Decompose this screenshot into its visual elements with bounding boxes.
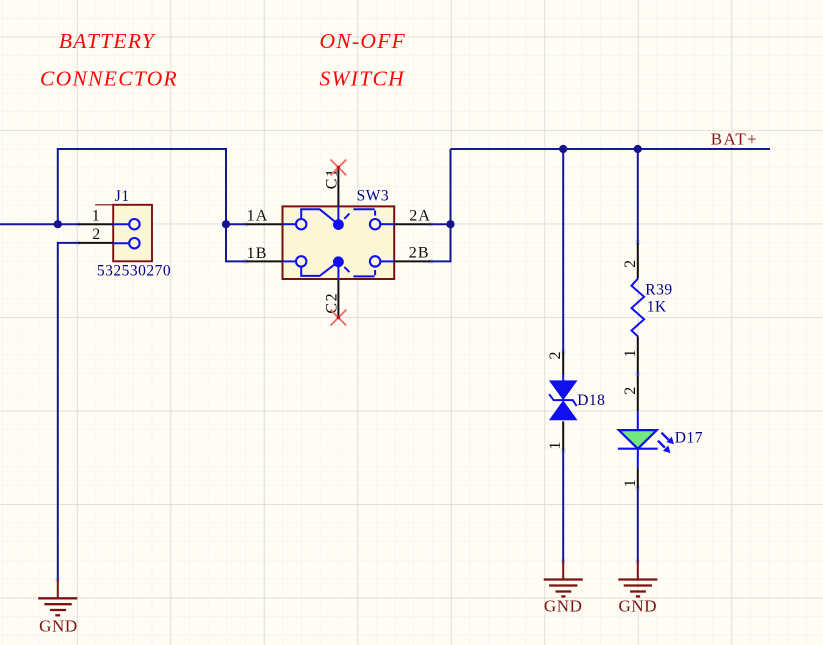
svg-text:2: 2 xyxy=(622,387,639,395)
wire: R39 branch upper xyxy=(637,149,639,242)
svg-text:C1: C1 xyxy=(323,168,340,190)
svg-text:GND: GND xyxy=(544,597,583,616)
title text ON-OFF SWITCH xyxy=(320,29,407,90)
svg-text:BATTERY: BATTERY xyxy=(59,29,156,53)
wire: R39 to D17 short link xyxy=(637,373,639,376)
svg-text:R39: R39 xyxy=(645,282,672,299)
ground symbol left xyxy=(38,579,78,635)
wire: corner to 1B pin xyxy=(225,260,246,262)
svg-text:1: 1 xyxy=(622,479,639,487)
SW3 pin C2 line xyxy=(323,262,340,318)
wire: 2A pin to right junction xyxy=(431,223,451,225)
junction at J1 pin1 xyxy=(54,220,62,228)
svg-text:1K: 1K xyxy=(647,299,667,316)
SW3 pin 1A xyxy=(246,208,283,225)
pin hotspot markers xyxy=(56,222,641,582)
svg-text:D18: D18 xyxy=(577,392,605,409)
J1 pin 1 line xyxy=(78,208,113,225)
svg-text:2: 2 xyxy=(547,352,564,360)
wire: junction to 1A pin xyxy=(226,223,246,225)
wire: D17 to GND xyxy=(637,488,639,562)
wire: top rail left segment xyxy=(57,148,227,150)
LED D17 pin 1 xyxy=(622,468,639,488)
svg-text:GND: GND xyxy=(39,616,78,635)
svg-text:ON-OFF: ON-OFF xyxy=(320,29,407,53)
svg-text:1: 1 xyxy=(622,349,639,357)
wire: top rail right segment to BAT+ xyxy=(451,148,771,150)
no-connect X on C1 xyxy=(331,160,347,176)
wire: left edge to J1 pin1 junction xyxy=(0,223,78,225)
SW3 top pole contacts and lever xyxy=(283,209,395,230)
J1 internal pin 1 circle xyxy=(113,219,139,229)
svg-text:2A: 2A xyxy=(409,208,431,225)
svg-text:2B: 2B xyxy=(409,244,430,261)
resistor R39 pin 2 xyxy=(622,242,639,278)
junction at switch 1A column xyxy=(222,220,230,228)
LED D17 symbol xyxy=(618,411,658,468)
wire: J1 pin2 to GND vertical xyxy=(58,243,78,580)
connector J1 body xyxy=(95,205,152,261)
junction at D18 branch on top rail xyxy=(559,145,567,153)
svg-text:SW3: SW3 xyxy=(357,188,390,205)
resistor R39 zigzag xyxy=(632,279,645,337)
svg-text:1: 1 xyxy=(547,442,564,450)
TVS diode D18 pin 1 xyxy=(547,421,564,450)
svg-text:2: 2 xyxy=(622,260,639,268)
svg-text:2: 2 xyxy=(92,226,100,243)
svg-text:1: 1 xyxy=(92,208,100,225)
svg-text:CONNECTOR: CONNECTOR xyxy=(40,66,178,90)
svg-text:1A: 1A xyxy=(247,208,269,225)
title text BATTERY CONNECTOR xyxy=(40,29,178,90)
junction at switch 2A column xyxy=(446,220,454,228)
wire: D18 to GND xyxy=(562,450,564,561)
SW3 pin 2B xyxy=(394,244,431,261)
svg-text:J1: J1 xyxy=(115,188,130,205)
wire: D18 branch upper xyxy=(562,149,564,352)
LED D17 emission arrows xyxy=(658,433,674,453)
svg-text:1B: 1B xyxy=(247,245,268,262)
switch SW3 body xyxy=(283,206,395,279)
svg-text:GND: GND xyxy=(618,597,657,616)
ground symbol right (D17) xyxy=(618,561,657,616)
wire: vertical at x=450.5 xyxy=(450,149,452,261)
svg-text:BAT+: BAT+ xyxy=(711,130,758,149)
J1 pin 2 line xyxy=(78,226,113,243)
junction at R39 branch on top rail xyxy=(634,145,642,153)
LED D17 pin 2 xyxy=(622,376,639,412)
svg-text:532530270: 532530270 xyxy=(97,263,171,280)
wire: 2B pin to corner xyxy=(431,260,452,262)
svg-text:SWITCH: SWITCH xyxy=(320,66,406,90)
wire: vertical from junction up to top rail xyxy=(57,149,59,224)
SW3 bottom pole contacts and lever xyxy=(283,256,395,276)
resistor R39 pin 1 xyxy=(622,336,639,372)
TVS diode D18 pin 2 xyxy=(547,352,564,376)
SW3 pin 2A xyxy=(394,208,431,225)
svg-text:D17: D17 xyxy=(675,429,703,446)
J1 internal pin 2 circle xyxy=(113,238,139,248)
SW3 pin 1B xyxy=(246,245,283,262)
ground symbol middle (D18) xyxy=(544,561,583,616)
no-connect X on C2 xyxy=(331,310,347,326)
wire: vertical at x=226 down to 1B row xyxy=(225,149,227,261)
SW3 pin C1 line xyxy=(323,167,340,224)
TVS diode D18 symbol xyxy=(549,375,578,421)
